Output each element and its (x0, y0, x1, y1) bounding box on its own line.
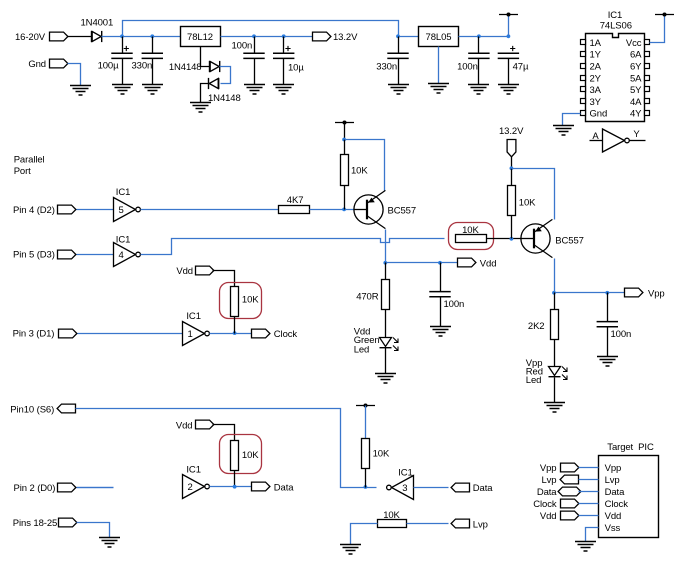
ground under 47u (498, 85, 519, 95)
svg-text:Pins 18-25: Pins 18-25 (13, 518, 57, 529)
junction at 330n-1 (150, 34, 154, 38)
junction Clock node (233, 331, 237, 335)
wire 4K7 to Q1 base (310, 209, 354, 211)
wire gate 3 input from Data tag (414, 487, 449, 489)
highlight box clock pullup (220, 283, 262, 319)
IC U1 left pin 3A (581, 87, 586, 92)
resistor R5 470R (382, 280, 390, 310)
highlight box around series 10K (449, 223, 494, 250)
wire 16-20V tag to D1 anode (68, 36, 92, 38)
wire 13.2V node to 10K top (511, 169, 513, 186)
svg-text:100n: 100n (232, 40, 253, 51)
capacitor C3 100n (243, 53, 264, 58)
svg-text:Vcc: Vcc (626, 38, 642, 49)
wire R4 bottom to Q2 base junction (511, 216, 513, 239)
svg-text:2A: 2A (590, 62, 602, 73)
svg-text:Target PIC: Target PIC (607, 442, 654, 453)
svg-text:Vss: Vss (605, 523, 621, 534)
wire D3 cathode to ground (201, 84, 209, 103)
svg-text:2: 2 (188, 482, 193, 493)
wire 470R to green LED (385, 310, 387, 338)
io tag Data right (451, 483, 469, 492)
transistor Q2 BC557 (521, 219, 553, 257)
svg-text:74LS06: 74LS06 (600, 20, 632, 31)
wire Q2 collector down to Vpp row (554, 259, 556, 293)
junction Q1 rail (342, 138, 346, 142)
wire 13.2V node to Q2 emitter (512, 169, 555, 220)
IC U1 right pin Vcc (645, 40, 650, 45)
junction 100n vpp (605, 291, 609, 295)
wire 78L12 output rail (221, 36, 313, 38)
svg-text:Vpp: Vpp (540, 463, 557, 474)
svg-text:78L12: 78L12 (187, 32, 213, 43)
IC U1 right pin 4A (645, 99, 650, 104)
ground under 10u (273, 85, 294, 95)
port tag Pin 4 (D2) (58, 205, 76, 214)
wire 100n-1 bottom lead (254, 59, 256, 85)
svg-text:Pin 3 (D1): Pin 3 (D1) (13, 329, 55, 340)
svg-text:10K: 10K (519, 198, 536, 209)
ground under 100n vpp (597, 357, 618, 367)
wire 2K2 top lead (554, 293, 556, 310)
svg-text:10K: 10K (351, 165, 368, 176)
output tag 13.2V (313, 32, 331, 41)
svg-text:Data: Data (274, 483, 294, 494)
svg-text:10K: 10K (373, 448, 390, 459)
power bar above gate3 pullup (356, 404, 375, 408)
wire rail to Q1 emitter (345, 140, 385, 191)
svg-text:1N4148: 1N4148 (169, 62, 202, 73)
svg-text:4: 4 (119, 250, 124, 261)
capacitor C4 10u (273, 46, 294, 59)
inverter gate IC1:1 (183, 322, 210, 346)
ground under 78L05 (428, 84, 449, 94)
wire 10u top lead (283, 37, 285, 54)
svg-text:Pin10 (S6): Pin10 (S6) (10, 405, 54, 416)
wire top bus to 78L05 input (399, 36, 419, 38)
wire 330n-2 bottom lead (398, 59, 400, 85)
LED D5 red (549, 367, 568, 380)
IC U1 left pin Gnd (581, 111, 586, 116)
junction Q1 base (342, 208, 346, 212)
svg-text:Pin 5 (D3): Pin 5 (D3) (13, 250, 55, 261)
wire D2 cathode to corner (220, 67, 231, 84)
wire 330n-1 top lead (152, 37, 154, 54)
wire data pullup to junction (234, 471, 236, 487)
svg-text:1: 1 (188, 329, 193, 340)
svg-text:Lvp: Lvp (541, 475, 556, 486)
svg-text:Pin 4 (D2): Pin 4 (D2) (13, 205, 55, 216)
port tag Pin 5 (D3) (58, 250, 76, 259)
wire Vpp tag to PIC (579, 467, 599, 469)
diode D2 1N4148 (210, 61, 220, 72)
capacitor C6 100n (468, 53, 489, 58)
svg-text:Vpp: Vpp (605, 463, 622, 474)
svg-text:Y: Y (633, 129, 640, 140)
highlight box data pullup (220, 435, 262, 474)
capacitor C8 100n (429, 292, 450, 297)
wire gate 4 output long net with hop (141, 239, 445, 255)
ground under red LED (544, 403, 565, 413)
svg-text:6A: 6A (630, 50, 642, 61)
ground for Gnd input (70, 86, 91, 96)
svg-text:2K2: 2K2 (528, 321, 545, 332)
wire Data tag to PIC (579, 491, 599, 493)
svg-text:100n: 100n (457, 62, 478, 73)
wire Vdd tag to PIC (579, 515, 599, 517)
resistor R8 10K gate3 pullup (362, 439, 370, 469)
io tag Lvp pic (560, 475, 578, 484)
svg-text:Parallel: Parallel (14, 154, 45, 165)
svg-text:100n: 100n (611, 329, 632, 340)
port tag Pins 18-25 (59, 518, 77, 527)
capacitor C1 100u (111, 46, 132, 59)
capacitor C2 330n (142, 53, 163, 58)
wire Vss to ground (586, 528, 599, 542)
junction at 100n-1 (252, 34, 256, 38)
wire 47u bottom lead (508, 59, 510, 85)
wire Pin4 to gate 5 (77, 209, 114, 211)
IC U1 right pin 5A (645, 76, 650, 81)
IC U1 right pin 6Y (645, 64, 650, 69)
wire Q1 collector down (385, 230, 387, 263)
svg-text:Vpp: Vpp (648, 289, 665, 300)
svg-text:Data: Data (537, 487, 557, 498)
svg-text:6Y: 6Y (630, 62, 642, 73)
diode D1 1N4001 (92, 31, 102, 42)
wire 100n vpp bottom lead (607, 327, 609, 357)
svg-text:IC1: IC1 (116, 234, 130, 245)
svg-text:3: 3 (402, 483, 407, 494)
svg-text:1A: 1A (590, 38, 602, 49)
wire collector node to 470R (385, 263, 387, 280)
diode D3 1N4148 (209, 78, 219, 89)
svg-text:Clock: Clock (274, 329, 298, 340)
ground for 74LS06 (553, 126, 574, 136)
svg-text:Data: Data (473, 483, 493, 494)
wire Lvp tag to PIC (579, 479, 599, 481)
wire Gnd pin to ground (563, 114, 581, 126)
svg-text:470R: 470R (356, 292, 379, 303)
IC U4 Target PIC body (599, 456, 659, 538)
output tag Vpp (625, 288, 643, 297)
transistor Q1 BC557 (354, 190, 386, 228)
wire demo inverter input (590, 140, 603, 142)
wire series 10K to Q2 base (487, 238, 522, 240)
port tag 16-20V (50, 32, 68, 41)
svg-text:4Y: 4Y (630, 109, 642, 120)
svg-text:1N4001: 1N4001 (81, 18, 114, 29)
svg-text:Clock: Clock (605, 499, 629, 510)
power bar at 74LS06 Vcc (655, 13, 674, 17)
wire green LED to ground (385, 348, 387, 374)
output tag Data (252, 482, 270, 491)
wire Pin2 to gate 2 (77, 487, 114, 489)
svg-text:Vdd: Vdd (540, 511, 557, 522)
wire 100n-2 bottom lead (478, 59, 480, 85)
ground under 330n-2 (388, 85, 409, 95)
io tag Clock pic (561, 499, 579, 508)
svg-text:13.2V: 13.2V (499, 126, 524, 137)
IC U1 left pin 2Y (581, 76, 586, 81)
junction 100n mid (438, 261, 442, 265)
svg-text:IC1: IC1 (116, 187, 130, 198)
IC U1 right pin 6A (645, 52, 650, 57)
svg-text:3A: 3A (590, 85, 602, 96)
svg-text:Clock: Clock (533, 499, 557, 510)
IC U1 74LS06 body (586, 34, 645, 122)
svg-text:16-20V: 16-20V (15, 32, 46, 43)
supply tag Vdd clock pullup (196, 266, 214, 275)
svg-text:78L05: 78L05 (426, 32, 452, 43)
wire Vdd tag to clock pullup (213, 271, 235, 287)
svg-text:100n: 100n (444, 299, 465, 310)
port tag Pin 2 (D0) (58, 483, 76, 492)
wire Pin3 to gate 1 (78, 333, 183, 335)
wire D1 cathode to 78L12 input (102, 36, 181, 38)
svg-text:4A: 4A (630, 97, 642, 108)
wire 100n mid bottom lead (440, 297, 442, 327)
svg-text:Vdd: Vdd (605, 511, 622, 522)
wire 330n-2 top lead (398, 37, 400, 54)
resistor R3 10K series (456, 235, 487, 243)
svg-text:IC1: IC1 (608, 10, 622, 21)
svg-text:Led: Led (354, 345, 370, 356)
ground under 100n mid (430, 327, 451, 337)
inverter gate IC1:3 (387, 476, 414, 500)
svg-text:Vdd: Vdd (176, 266, 193, 277)
wire clock pullup to junction (234, 317, 236, 334)
svg-text:Vdd: Vdd (176, 421, 193, 432)
svg-text:Gnd: Gnd (28, 59, 46, 70)
wire red LED to ground (554, 378, 556, 403)
resistor R10 10K lvp (378, 520, 407, 528)
demo inverter symbol (603, 129, 630, 152)
junction at 330n-2 (396, 34, 400, 38)
wire gate 2 output to Data tag (210, 486, 252, 488)
junction gate3 output node (364, 485, 368, 489)
output tag Vdd mid (458, 258, 476, 267)
svg-text:5A: 5A (630, 73, 642, 84)
inverter gate IC1:4 (114, 243, 141, 267)
svg-text:BC557: BC557 (555, 235, 584, 246)
svg-text:BC557: BC557 (388, 205, 417, 216)
ground under diode pair (190, 103, 211, 113)
inverter gate IC1:2 (183, 475, 210, 499)
IC U1 left pin 3Y (581, 99, 586, 104)
IC U1 left pin 2A (581, 64, 586, 69)
IC U1 right pin 5Y (645, 87, 650, 92)
ground for Pins 18-25 (99, 538, 120, 548)
svg-text:Port: Port (14, 166, 31, 177)
junction Q2 base (510, 237, 514, 241)
wire gate 5 output to 4K7 (141, 209, 279, 211)
svg-text:Lvp: Lvp (605, 475, 620, 486)
IC U1 right pin 4Y (645, 111, 650, 116)
svg-text:1Y: 1Y (590, 50, 602, 61)
wire Gnd tag to ground (68, 64, 81, 86)
resistor R7 10K clock pullup (231, 287, 239, 317)
io tag Vdd pic (561, 511, 579, 520)
wire Pin2 gate input (77, 487, 114, 489)
wire gate 1 output to Clock tag (210, 333, 252, 335)
IC U1 left pin 1A (581, 40, 586, 45)
wire 2K2 to red LED (554, 340, 556, 367)
wire Vdd tag to data pullup (213, 425, 235, 441)
inverter gate IC1:5 (114, 198, 141, 222)
ground under green LED (375, 374, 396, 384)
resistor R2 10K (341, 155, 349, 186)
wire 100u bottom lead (122, 59, 124, 85)
capacitor C5 330n (387, 53, 408, 58)
ground under 330n-1 (142, 85, 163, 95)
wire 330n-1 bottom lead (152, 59, 154, 85)
wire 10K bottom to base junction (344, 186, 346, 210)
svg-text:3Y: 3Y (590, 97, 602, 108)
svg-text:10K: 10K (242, 294, 259, 305)
wire Pin5 to gate 4 (77, 254, 114, 256)
wire Vdd node row (386, 262, 458, 264)
supply tag 13.2V down (507, 140, 516, 157)
wire unregulated top bus (123, 21, 399, 37)
junction at 100n-2 (477, 34, 481, 38)
LED D4 green (380, 338, 399, 351)
svg-text:47µ: 47µ (513, 62, 529, 73)
ground under 100u (112, 85, 133, 95)
wire Vcc pin to power bar (650, 15, 665, 43)
svg-text:Lvp: Lvp (473, 520, 488, 531)
supply tag Vdd data pullup (196, 420, 214, 429)
ground under 100n-1 (244, 85, 265, 95)
io tag Data pic (558, 487, 581, 496)
wire R8 bottom to junction (365, 469, 367, 488)
svg-text:IC1: IC1 (186, 311, 200, 322)
ground for PIC Vss (575, 542, 596, 552)
svg-text:Pin 2 (D0): Pin 2 (D0) (14, 483, 56, 494)
svg-text:13.2V: 13.2V (333, 32, 358, 43)
junction at 47u (507, 34, 511, 38)
svg-text:2Y: 2Y (590, 73, 602, 84)
junction Data node (233, 485, 237, 489)
wire 100u top lead (122, 37, 124, 54)
junction Q2 collector Vpp (552, 291, 556, 295)
ground for lvp resistor (340, 545, 361, 555)
svg-text:330n: 330n (376, 62, 397, 73)
wire power bar to 10K (344, 123, 346, 140)
wire 100n-1 top lead (254, 37, 256, 54)
svg-text:5: 5 (119, 205, 124, 216)
resistor R9 10K data pullup (231, 441, 239, 471)
wire 100n-2 top lead (478, 37, 480, 54)
capacitor C7 47u (498, 46, 519, 59)
wire 13.2V tag down (511, 157, 513, 169)
svg-text:4K7: 4K7 (287, 195, 304, 206)
io tag Vpp pic (561, 463, 579, 472)
junction at D1 output (120, 34, 124, 38)
junction Q1 collector node (383, 261, 387, 265)
svg-text:100µ: 100µ (98, 60, 120, 71)
wire Pin10 long net (76, 409, 377, 488)
junction at 10u (282, 34, 286, 38)
output tag Clock (252, 329, 270, 338)
regulator U3 78L05 (419, 27, 459, 47)
port tag Gnd (50, 59, 68, 68)
wire 47u rail to power bar (508, 15, 510, 37)
wire Pins18-25 to ground (77, 523, 110, 538)
svg-text:IC1: IC1 (186, 465, 200, 476)
svg-text:Led: Led (526, 375, 542, 386)
regulator U2 78L12 (181, 27, 221, 47)
wire lvp ground side (351, 524, 378, 545)
wire Clock tag to PIC (579, 503, 599, 505)
svg-text:5Y: 5Y (630, 85, 642, 96)
resistor R4 10K (508, 186, 516, 216)
wire 10u bottom lead (283, 59, 285, 85)
svg-text:10K: 10K (242, 450, 259, 461)
wire Vpp row (555, 292, 625, 294)
power bar above Q1 (335, 121, 354, 125)
svg-text:10µ: 10µ (288, 63, 304, 74)
svg-text:Vdd: Vdd (480, 259, 497, 270)
resistor R6 2K2 (551, 310, 559, 340)
wire demo inverter output (630, 140, 646, 142)
wire power bar to R8 (365, 406, 367, 439)
svg-text:Data: Data (605, 487, 625, 498)
svg-text:1N4148: 1N4148 (208, 93, 241, 104)
wire 78L05 output rail (459, 36, 509, 38)
capacitor C9 100n (597, 322, 618, 327)
wire 100n mid top lead (440, 263, 442, 292)
ground under 100n-2 (468, 85, 489, 95)
IC U1 left pin 1Y (581, 52, 586, 57)
power bar Vdd top (499, 13, 518, 17)
svg-text:330n: 330n (132, 60, 153, 71)
port tag Pin10 (S6) (57, 404, 75, 413)
resistor R1 4K7 (279, 206, 310, 214)
port tag Pin 3 (D1) (59, 329, 77, 338)
wire lvp resistor to tag (407, 523, 449, 525)
wire 78L12 gnd pin down (201, 47, 210, 67)
junction 13.2V node (510, 166, 514, 170)
wire rail junction to 10K top (344, 140, 346, 155)
wire 78L05 gnd to ground (438, 47, 440, 84)
io tag Lvp (451, 519, 469, 528)
wire 100n vpp top lead (607, 293, 609, 322)
svg-text:Gnd: Gnd (590, 109, 608, 120)
